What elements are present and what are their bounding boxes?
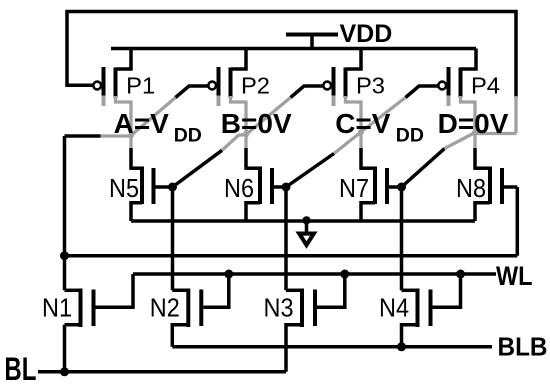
junction dot BL N1	[60, 367, 69, 376]
junction dot node C	[358, 129, 364, 135]
wire N6 gate drop to N3 drain	[284, 187, 288, 290]
nmos N3	[286, 274, 345, 372]
wire N8 gate riser down to row line	[516, 187, 520, 256]
wire P1 drain gray jog to node A	[116, 96, 132, 136]
pmos P2	[208, 49, 246, 107]
svg-text:N2: N2	[150, 295, 180, 323]
wire right riser gray part below top loop	[514, 96, 517, 134]
wire P4 drain gray jog to node D	[461, 96, 476, 133]
nmos N7	[361, 167, 402, 222]
svg-text:DD: DD	[396, 125, 424, 147]
wire P2 drain gray jog to node B	[231, 96, 247, 135]
svg-text:N5: N5	[109, 175, 139, 203]
wire P4 gate diagonal gray part to node C	[361, 98, 406, 133]
svg-text:VDD: VDD	[340, 20, 393, 48]
wire node A horizontal to left riser	[65, 134, 132, 138]
wire VDD rail	[111, 47, 476, 51]
junction dot N5 gate	[168, 183, 177, 192]
nmos N8	[475, 167, 517, 222]
svg-text:C=V: C=V	[335, 108, 391, 139]
node A drain drop to N5	[129, 136, 132, 170]
svg-text:DD: DD	[174, 125, 202, 147]
junction dot N6 gate	[282, 183, 291, 192]
label node A	[114, 108, 202, 147]
junction dot rail arrow	[302, 216, 310, 224]
nmos N2	[172, 274, 229, 347]
wire N6 gate diagonal to node C	[286, 132, 361, 187]
svg-text:P3: P3	[356, 73, 385, 99]
junction dot N7 gate	[397, 183, 406, 192]
wire P2 gate diagonal black part	[176, 86, 209, 98]
node B drain drop to N6	[244, 135, 247, 170]
svg-text:N6: N6	[224, 175, 254, 203]
wire P3 drain gray jog to node C	[346, 96, 362, 133]
svg-text:WL: WL	[496, 261, 533, 291]
svg-text:N7: N7	[339, 175, 369, 203]
wire N5 gate drop to N2 drain	[171, 187, 175, 290]
svg-text:N8: N8	[456, 175, 486, 203]
nmos N4	[402, 274, 461, 347]
svg-text:A=V: A=V	[114, 108, 170, 139]
wire N7 gate drop to N4 drain	[400, 187, 404, 290]
junction dot WL N2	[224, 270, 233, 279]
pmos P4	[438, 49, 476, 107]
wire BLB line	[172, 345, 492, 349]
ground arrow	[299, 221, 314, 246]
svg-text:N3: N3	[264, 295, 294, 323]
svg-text:BL: BL	[4, 351, 36, 387]
wire left riser node A to BL	[63, 136, 67, 372]
svg-text:N4: N4	[379, 295, 409, 323]
wire P3 gate diagonal black part	[291, 86, 324, 98]
pmos P3	[323, 49, 361, 107]
junction dot WL N3	[340, 270, 349, 279]
VDD supply symbol	[286, 35, 338, 49]
svg-text:P2: P2	[241, 73, 270, 99]
svg-text:P4: P4	[471, 73, 500, 99]
svg-text:P1: P1	[126, 73, 155, 99]
junction dot row line left	[60, 251, 69, 260]
svg-text:N1: N1	[42, 295, 72, 323]
junction dot node D	[472, 130, 478, 136]
pmos P1	[93, 49, 131, 107]
svg-text:BLB: BLB	[498, 332, 548, 362]
wire BL line	[38, 370, 286, 374]
wire common source rail of N5-N8	[131, 219, 475, 223]
junction dot WL N4	[456, 270, 465, 279]
junction dot node B	[243, 132, 249, 138]
junction dot BLB N4	[397, 342, 406, 351]
svg-text:B=0V: B=0V	[221, 108, 292, 139]
nmos N1	[65, 274, 134, 327]
wire N7 gate diagonal to node D	[402, 133, 476, 188]
nmos N6	[246, 167, 286, 222]
label node C	[335, 108, 424, 147]
wire P3 gate diagonal gray part to node B	[246, 98, 291, 135]
wire node D horizontal to right riser gray	[475, 132, 516, 135]
wire P2 gate diagonal gray part to node A	[131, 98, 176, 136]
wire N5 gate diagonal to node B	[173, 135, 247, 188]
wire WL line	[133, 272, 496, 276]
wire top loop P1 gate to node D riser	[67, 12, 516, 98]
wire P4 gate diagonal black part	[406, 86, 439, 98]
nmos N5	[131, 167, 173, 222]
wire row line A net	[65, 254, 518, 258]
node D drain drop to N8	[473, 133, 476, 170]
node C drain drop to N7	[359, 132, 362, 170]
junction dot node A	[128, 133, 134, 139]
